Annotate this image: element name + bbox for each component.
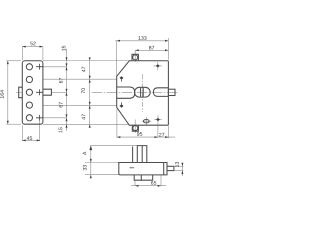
latch protrusion: [168, 89, 175, 95]
plate outline: [22, 61, 43, 124]
dim 45 line: [22, 139, 40, 141]
latch bar: [153, 88, 168, 97]
dim 45 ext right: [39, 121, 41, 141]
label 47: [82, 114, 86, 119]
label 15: [62, 46, 66, 51]
arrows 87: [135, 49, 138, 51]
screw tab below case: [134, 175, 141, 180]
chain B dim line: [89, 61, 91, 128]
label 47: [82, 67, 86, 72]
arrows 33 (outside): [90, 159, 92, 163]
label 13: [175, 162, 179, 167]
screw axis line bottom screw: [134, 120, 136, 134]
bottom view: housing top projection: [90, 145, 137, 147]
dim 95 ext left: [116, 109, 118, 138]
chain A arrows: [66, 57, 68, 60]
cylinder chord right: [142, 88, 144, 97]
arrows 52: [22, 46, 25, 48]
dim 164 ext top: [6, 60, 21, 62]
leader c4 level to body: [43, 104, 116, 106]
dim 13 ext top: [174, 165, 183, 167]
dim 133/87 ext right: [167, 38, 169, 60]
dim 87 ext (screw axis upper): [134, 50, 136, 54]
diamond stem lower: [120, 102, 123, 104]
diamond marker upper vertex: [120, 76, 124, 79]
cylinder chord left: [140, 88, 142, 97]
lower cross diamond: [156, 118, 160, 121]
bottom view: case top ext: [85, 162, 119, 164]
dim 65 ext right: [160, 175, 162, 186]
label 95: [137, 132, 142, 136]
hole 2: [26, 76, 32, 82]
label 133: [138, 36, 146, 40]
cross marker c3: [36, 89, 43, 95]
leader c5: [41, 117, 66, 119]
cross marker c5: [36, 115, 43, 121]
label 67: [59, 78, 63, 83]
label 67: [59, 102, 63, 107]
dim 27 ext right: [168, 126, 170, 138]
cross marker c1: [36, 64, 43, 121]
vertical centerline cylinder: [141, 74, 143, 112]
case dash mark: [130, 167, 135, 169]
lower cross arms: [154, 119, 162, 121]
hole 4: [26, 102, 32, 108]
label 70: [81, 88, 85, 93]
diamond stem upper: [120, 79, 123, 81]
faceplate inner line: [163, 163, 165, 175]
hole 5: [26, 115, 32, 121]
small oval: [143, 120, 149, 123]
label 33: [83, 165, 87, 170]
chain A dim line: [66, 49, 68, 131]
label 65: [151, 181, 156, 185]
label 27: [159, 133, 164, 137]
top screw bracket: [132, 54, 138, 60]
dim 87 line: [135, 49, 168, 51]
dim 65 line: [131, 185, 166, 187]
screw axis line top screw: [134, 54, 136, 62]
upper cross arms: [154, 65, 162, 67]
label 164: [0, 90, 4, 98]
label 15: [59, 127, 63, 132]
upper cross diamond: [156, 64, 160, 67]
arrows 95: [117, 136, 120, 138]
small step below case: [141, 175, 152, 180]
dim 13 ext bottom: [174, 170, 183, 172]
hole 1: [26, 64, 32, 70]
dim 133 line: [115, 40, 168, 42]
dim 13 line: [181, 163, 183, 177]
hole 3: [26, 89, 32, 95]
arrows 45: [22, 139, 25, 141]
bottom view: case bottom ext: [85, 174, 119, 176]
label 52: [30, 42, 35, 46]
oval horizontal centerline: [142, 120, 152, 122]
dim 52 line: [22, 46, 43, 48]
oval vertical centerline: [145, 117, 147, 125]
dim 164 ext bottom: [6, 123, 21, 125]
tab midline: [16, 91, 22, 93]
projection line bottom: [43, 123, 129, 125]
dim 52 ext left: [21, 47, 23, 61]
leader c2 level to body: [43, 78, 116, 80]
arrows 164: [7, 61, 9, 64]
bolt: [117, 87, 135, 98]
bolt stub right of plate: [43, 89, 52, 95]
dim 45 ext left: [21, 125, 23, 141]
bottom screw bracket: [132, 125, 138, 131]
cylinder stadium: [135, 87, 151, 97]
arrows 13 (outside): [181, 163, 183, 166]
dim 95/27 ext middle (from lower cross): [157, 124, 159, 138]
label 45: [27, 136, 32, 140]
label 87: [149, 46, 154, 50]
dim 95-27 line: [117, 136, 175, 138]
label A: [83, 152, 87, 155]
cylinder housing upright: [137, 146, 147, 163]
housing inner line: [141, 146, 143, 163]
diamond marker lower vertex: [120, 104, 124, 107]
arrow 27 outside right: [165, 136, 168, 138]
section/dim line A-33: [90, 146, 92, 177]
leader c3 (bolt axis): [51, 91, 66, 93]
left tab: [19, 87, 23, 98]
case rect: [119, 163, 167, 175]
latch tip: [167, 166, 174, 170]
chain B arrows: [89, 57, 91, 60]
horizontal centerline lock: [92, 91, 178, 93]
dim 133 ext left: [116, 41, 118, 76]
side vertical in case: [132, 147, 134, 163]
section arrow A: [89, 145, 92, 150]
projection line top (plate top to body top corner): [43, 60, 129, 62]
dim 52 ext right: [42, 47, 44, 61]
dim 164 line: [7, 61, 9, 124]
body outline: [117, 61, 169, 125]
leader c1: [41, 66, 66, 68]
arrows 65: [135, 185, 138, 187]
top screw: [133, 55, 138, 60]
bottom screw: [133, 126, 138, 131]
dim 65 ext left: [134, 181, 136, 187]
arrows 133: [117, 40, 120, 42]
